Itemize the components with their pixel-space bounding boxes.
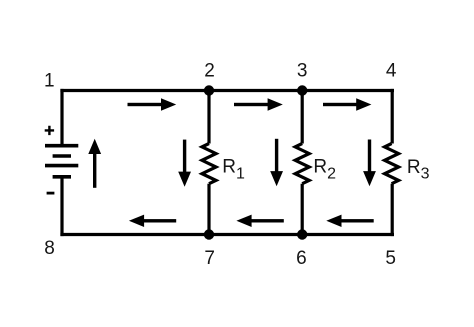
node 2 junction dot (204, 85, 214, 95)
svg-text:8: 8 (44, 238, 55, 259)
current arrow right (node 1 to 2) (128, 98, 177, 110)
wire branch R2 lower (R2 to node 6) (301, 184, 304, 236)
svg-text:R2: R2 (313, 157, 336, 183)
svg-text:1: 1 (44, 71, 55, 92)
node 6 junction dot (297, 229, 307, 239)
wire left upper (node 1 to battery +) (60, 89, 63, 144)
current arrow down (R1 branch) (178, 140, 191, 187)
svg-text:R3: R3 (407, 157, 430, 183)
svg-text:R1: R1 (222, 157, 245, 183)
wire right branch lower (R3 to node 5) (391, 184, 394, 236)
current arrow down (R2 branch) (270, 139, 283, 187)
resistor R2 zigzag (295, 144, 309, 184)
resistor R1 zigzag (202, 144, 216, 184)
current arrow left (node 7 to 8) (129, 215, 176, 227)
resistor R3 zigzag (385, 144, 399, 184)
current arrow right (node 3 to 4) (323, 98, 371, 110)
current arrow left (node 5 to 6) (326, 215, 373, 227)
wire branch R1 upper (node 2 to R1) (207, 89, 210, 144)
current arrow up (battery) (88, 139, 101, 188)
svg-text:7: 7 (204, 248, 215, 269)
battery B1 plate short bottom (53, 175, 71, 179)
svg-text:2: 2 (204, 61, 215, 82)
svg-text:5: 5 (385, 248, 396, 269)
node 3 junction dot (297, 85, 307, 95)
battery plus sign (45, 126, 54, 135)
battery B1 plate long (45, 164, 78, 168)
battery B1 plate long top (45, 144, 78, 148)
battery B1 plate short (53, 154, 71, 158)
wire top (node 1 to node 4) (60, 89, 394, 92)
current arrow left (node 6 to 7) (236, 215, 283, 227)
svg-text:3: 3 (297, 61, 308, 82)
battery minus sign (47, 192, 55, 195)
svg-text:4: 4 (386, 61, 397, 82)
current arrow right (node 2 to 3) (234, 98, 283, 110)
node 7 junction dot (204, 229, 214, 239)
wire left lower (battery - to node 8) (60, 179, 63, 237)
wire branch R2 upper (node 3 to R2) (301, 89, 304, 144)
wire branch R1 lower (R1 to node 7) (207, 184, 210, 236)
wire bottom (node 5 to node 8) (60, 233, 394, 236)
svg-text:6: 6 (296, 248, 307, 269)
current arrow down (R3 branch) (363, 140, 376, 187)
wire right branch upper (node 4 to R3) (391, 89, 394, 144)
